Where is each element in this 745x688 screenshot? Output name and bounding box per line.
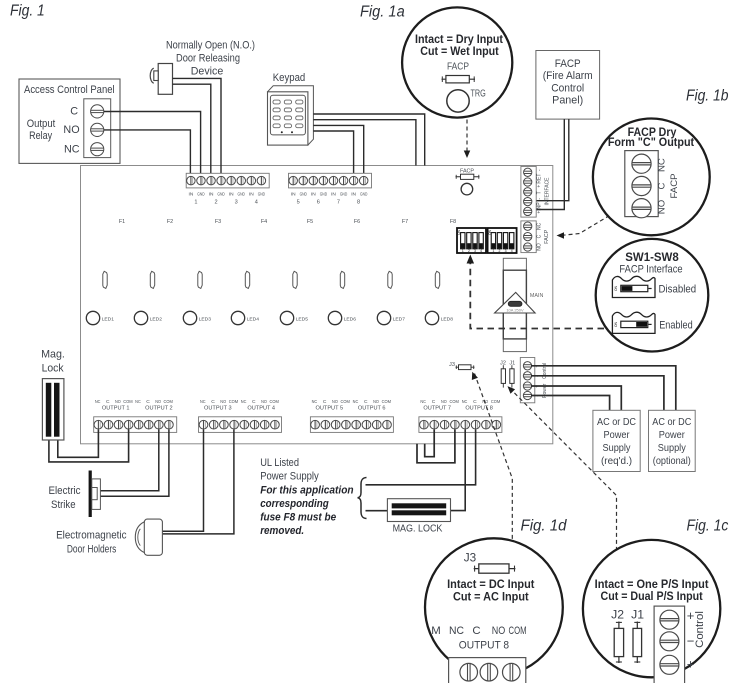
svg-text:NC: NC bbox=[241, 399, 247, 405]
svg-text:Supply: Supply bbox=[658, 443, 687, 454]
input terminal strip 1-4 bbox=[186, 173, 269, 188]
svg-text:10A 250V: 10A 250V bbox=[506, 307, 524, 312]
svg-text:FACP: FACP bbox=[544, 229, 550, 243]
keypad wire 4 to IN8 bbox=[313, 131, 353, 177]
Fig 1d terminal strip bbox=[449, 658, 526, 685]
svg-text:C: C bbox=[473, 399, 477, 405]
svg-text:NC: NC bbox=[200, 399, 206, 405]
svg-text:F7: F7 bbox=[402, 219, 408, 225]
svg-text:(optional): (optional) bbox=[653, 456, 691, 467]
svg-text:F8: F8 bbox=[450, 219, 456, 225]
mag lock (output 8) bbox=[387, 499, 450, 522]
svg-text:7: 7 bbox=[337, 199, 340, 205]
svg-text:Strike: Strike bbox=[51, 499, 76, 511]
svg-text:(req'd.): (req'd.) bbox=[601, 456, 632, 467]
svg-text:Control: Control bbox=[551, 82, 584, 94]
svg-text:NC: NC bbox=[420, 399, 426, 405]
svg-text:Form "C" Output: Form "C" Output bbox=[608, 136, 694, 149]
svg-text:FACP: FACP bbox=[669, 173, 680, 198]
svg-text:GND: GND bbox=[340, 191, 348, 196]
Fig 1c J2 jumper bbox=[618, 622, 620, 664]
svg-text:OUTPUT 1: OUTPUT 1 bbox=[102, 406, 130, 412]
dashed: Fig 1a to board FACP fuse bbox=[466, 120, 468, 152]
relay screw C bbox=[91, 105, 104, 118]
svg-text:Mag.: Mag. bbox=[41, 349, 65, 361]
svg-text:LED7: LED7 bbox=[393, 316, 406, 322]
relay screw NO bbox=[91, 123, 104, 136]
svg-text:COM: COM bbox=[509, 625, 527, 637]
access control panel box bbox=[19, 79, 120, 163]
svg-text:NO: NO bbox=[441, 399, 447, 405]
svg-text:Fig. 1a: Fig. 1a bbox=[360, 4, 405, 21]
relay terminal strip bbox=[84, 99, 111, 158]
svg-text:OUTPUT 4: OUTPUT 4 bbox=[247, 406, 275, 412]
svg-text:FACP Interface: FACP Interface bbox=[619, 263, 682, 275]
svg-text:OUTPUT 6: OUTPUT 6 bbox=[358, 406, 386, 412]
svg-text:C: C bbox=[70, 106, 78, 118]
controller board outline bbox=[81, 166, 553, 444]
fuse F7 clip bbox=[388, 271, 392, 288]
svg-text:Power: Power bbox=[659, 430, 685, 441]
keypad leds bbox=[281, 131, 283, 133]
svg-text:J2: J2 bbox=[611, 608, 624, 622]
svg-text:Output: Output bbox=[27, 118, 56, 130]
svg-text:Control: Control bbox=[694, 611, 706, 648]
svg-text:LED5: LED5 bbox=[296, 316, 309, 322]
svg-text:NO: NO bbox=[657, 200, 668, 214]
svg-text:COM: COM bbox=[229, 399, 238, 405]
svg-text:OUTPUT 2: OUTPUT 2 bbox=[145, 406, 173, 412]
svg-text:T: T bbox=[536, 191, 542, 194]
svg-text:Keypad: Keypad bbox=[273, 72, 306, 84]
svg-text:FACP: FACP bbox=[555, 58, 581, 70]
wire hook: COM7 bbox=[417, 430, 455, 463]
svg-text:NC: NC bbox=[64, 144, 80, 156]
svg-text:F5: F5 bbox=[307, 219, 313, 225]
wire: supply brace to mag lock bbox=[366, 510, 388, 512]
FACP (fire alarm control panel) box bbox=[536, 51, 600, 120]
svg-text:IN: IN bbox=[351, 191, 356, 196]
svg-text:NC: NC bbox=[657, 158, 668, 172]
svg-text:NC: NC bbox=[95, 399, 101, 405]
svg-text:IN: IN bbox=[209, 191, 214, 196]
svg-text:NO: NO bbox=[332, 399, 338, 405]
keypad (3D) bbox=[268, 86, 314, 145]
svg-text:ON: ON bbox=[614, 285, 618, 291]
svg-text:Cut = AC Input: Cut = AC Input bbox=[453, 589, 529, 603]
svg-text:Fig. 1: Fig. 1 bbox=[10, 3, 45, 20]
svg-text:OUTPUT 7: OUTPUT 7 bbox=[423, 406, 451, 412]
svg-text:C: C bbox=[364, 399, 368, 405]
fuse F8 clip bbox=[435, 271, 439, 288]
svg-text:COM: COM bbox=[123, 399, 132, 405]
svg-text:4: 4 bbox=[480, 249, 482, 253]
svg-text:GND: GND bbox=[258, 191, 266, 196]
svg-text:IN: IN bbox=[311, 191, 316, 196]
input terminal strip 5-8 bbox=[289, 173, 372, 188]
svg-text:C: C bbox=[432, 399, 436, 405]
output terminal strip OUTPUT 5/OUTPUT 6 bbox=[310, 417, 393, 433]
Fig 1b callout circle bbox=[593, 118, 710, 235]
wire: door device to IN2 bbox=[173, 78, 222, 177]
svg-text:NC: NC bbox=[449, 625, 464, 637]
svg-text:4: 4 bbox=[511, 249, 513, 253]
MAIN fuse block bbox=[503, 258, 526, 351]
svg-text:3: 3 bbox=[235, 199, 238, 205]
svg-text:LED8: LED8 bbox=[441, 316, 454, 322]
FACP dry-contact terminal strip bbox=[521, 221, 536, 253]
svg-text:C: C bbox=[211, 399, 215, 405]
Fig 1c terminal strip bbox=[654, 606, 685, 684]
wire: electric strike to COM2 bbox=[100, 430, 168, 497]
Fig 1a callout circle bbox=[402, 7, 512, 117]
svg-text:F4: F4 bbox=[261, 219, 267, 225]
svg-text:+: + bbox=[536, 185, 542, 188]
MAIN warning triangle 10A 250V bbox=[495, 292, 535, 313]
svg-text:Panel): Panel) bbox=[552, 95, 583, 107]
LED6 bbox=[328, 311, 341, 324]
door releasing device (pushbutton) bbox=[158, 64, 172, 95]
svg-text:Disabled: Disabled bbox=[659, 284, 697, 296]
AC or DC power supply (required) box bbox=[593, 410, 640, 471]
svg-text:IN: IN bbox=[249, 191, 254, 196]
svg-text:IN: IN bbox=[331, 191, 336, 196]
svg-text:Door Releasing: Door Releasing bbox=[176, 53, 240, 65]
svg-text:Power: Power bbox=[604, 430, 630, 441]
svg-text:J1: J1 bbox=[631, 608, 644, 622]
svg-text:AC or DC: AC or DC bbox=[652, 417, 691, 428]
svg-text:Fig. 1b: Fig. 1b bbox=[686, 88, 729, 105]
svg-text:LED2: LED2 bbox=[150, 316, 163, 322]
svg-text:Electric: Electric bbox=[48, 485, 81, 497]
wire: NC8 to mag lock (bottom) bbox=[451, 430, 466, 511]
power/control terminal strip bbox=[520, 358, 535, 403]
fuse F3 clip bbox=[198, 271, 202, 288]
svg-text:COM: COM bbox=[491, 399, 500, 405]
LED2 bbox=[134, 311, 147, 324]
svg-text:COM: COM bbox=[163, 399, 172, 405]
svg-text:LED1: LED1 bbox=[102, 316, 115, 322]
LED3 bbox=[183, 311, 196, 324]
Fig 1a TRG circle bbox=[447, 90, 469, 112]
svg-text:Electromagnetic: Electromagnetic bbox=[56, 530, 127, 542]
Fig 1a FACP fuse bbox=[442, 78, 476, 80]
svg-text:LED6: LED6 bbox=[344, 316, 357, 322]
svg-text:C: C bbox=[536, 234, 542, 238]
svg-text:OUTPUT 5: OUTPUT 5 bbox=[316, 406, 344, 412]
LED4 bbox=[231, 311, 244, 324]
svg-text:C: C bbox=[146, 399, 150, 405]
svg-text:NO: NO bbox=[220, 399, 226, 405]
svg-text:Relay: Relay bbox=[29, 130, 52, 142]
svg-text:NC: NC bbox=[353, 399, 359, 405]
svg-text:FACP: FACP bbox=[460, 168, 474, 174]
wire: mag lock to NC1 bbox=[58, 430, 99, 458]
svg-text:GND: GND bbox=[217, 191, 225, 196]
svg-text:UL Listed: UL Listed bbox=[260, 457, 299, 469]
svg-text:C: C bbox=[323, 399, 327, 405]
svg-text:Lock: Lock bbox=[42, 363, 64, 375]
keypad wire 1 (to board edge) bbox=[313, 114, 424, 166]
fuse F6 clip bbox=[340, 271, 344, 288]
dashed: J1/J2 to Fig 1c bbox=[510, 388, 617, 550]
fuse F2 clip bbox=[150, 271, 154, 288]
svg-text:GND: GND bbox=[197, 191, 205, 196]
wire: door holder to COM3 bbox=[162, 430, 234, 534]
dashed: J3 to Fig 1d bbox=[475, 374, 513, 540]
svg-text:OUTPUT 3: OUTPUT 3 bbox=[204, 406, 232, 412]
wire: door device to GND2 bbox=[173, 84, 211, 177]
svg-text:1: 1 bbox=[194, 199, 197, 205]
LED8 bbox=[425, 311, 438, 324]
wire hook: C7 bbox=[425, 430, 435, 457]
SW disabled graphic bbox=[612, 276, 655, 297]
svg-text:AC or DC: AC or DC bbox=[597, 417, 636, 428]
wire: power - to required supply bbox=[531, 396, 610, 411]
wire: relay C to input GND1 bbox=[104, 112, 201, 178]
svg-text:COM: COM bbox=[270, 399, 279, 405]
fuse F1 clip bbox=[103, 271, 107, 288]
output terminal strip OUTPUT 3/OUTPUT 4 bbox=[199, 417, 282, 433]
svg-text:NO: NO bbox=[155, 399, 161, 405]
svg-text:5: 5 bbox=[297, 199, 300, 205]
svg-text:removed.: removed. bbox=[260, 525, 304, 537]
output terminal strip OUTPUT 7/OUTPUT 8 bbox=[419, 417, 502, 433]
svg-text:Fig. 1d: Fig. 1d bbox=[521, 518, 568, 535]
svg-text:Supply: Supply bbox=[603, 443, 632, 454]
svg-text:4: 4 bbox=[255, 199, 258, 205]
svg-text:Device: Device bbox=[191, 66, 224, 78]
svg-text:NO: NO bbox=[261, 399, 267, 405]
svg-text:Enabled: Enabled bbox=[659, 320, 693, 332]
svg-text:MAG. LOCK: MAG. LOCK bbox=[393, 524, 443, 535]
FACP wire to RET terminal bbox=[528, 119, 564, 209]
svg-text:IN: IN bbox=[291, 191, 296, 196]
svg-text:OUTPUT 8: OUTPUT 8 bbox=[465, 406, 493, 412]
svg-text:COM: COM bbox=[382, 399, 391, 405]
svg-text:LED4: LED4 bbox=[247, 316, 260, 322]
svg-text:1: 1 bbox=[462, 249, 464, 253]
svg-text:NO: NO bbox=[536, 243, 542, 251]
keypad wire 2 (to board edge) bbox=[313, 120, 416, 166]
svg-text:fuse F8 must be: fuse F8 must be bbox=[260, 511, 336, 523]
dashed: SW1-SW8 to DIP switches bbox=[470, 260, 604, 329]
svg-text:C: C bbox=[106, 399, 110, 405]
Fig 1d callout circle bbox=[425, 538, 563, 676]
svg-text:3: 3 bbox=[505, 249, 507, 253]
wire: power + to required supply bbox=[531, 386, 621, 410]
SW1-SW8 callout circle bbox=[596, 239, 709, 352]
svg-text:NO: NO bbox=[63, 124, 79, 136]
svg-text:IN: IN bbox=[189, 191, 194, 196]
svg-text:J3: J3 bbox=[464, 551, 477, 565]
dashed: Fig 1b to FACP strip bbox=[562, 216, 610, 236]
svg-text:F3: F3 bbox=[215, 219, 221, 225]
svg-text:Fig. 1c: Fig. 1c bbox=[687, 518, 729, 535]
svg-text:1: 1 bbox=[492, 249, 494, 253]
svg-text:Cut = Wet Input: Cut = Wet Input bbox=[420, 44, 499, 58]
svg-text:C: C bbox=[472, 625, 480, 637]
Fig 1d J3 jumper bbox=[474, 568, 516, 570]
svg-text:GND: GND bbox=[238, 191, 246, 196]
svg-text:FACP: FACP bbox=[447, 62, 469, 73]
fuse F4 clip bbox=[245, 271, 249, 288]
relay screw NC bbox=[91, 143, 104, 156]
svg-text:NO: NO bbox=[115, 399, 121, 405]
svg-text:RET: RET bbox=[536, 174, 542, 184]
svg-text:Access Control Panel: Access Control Panel bbox=[24, 84, 115, 96]
svg-text:2: 2 bbox=[214, 199, 217, 205]
svg-text:GND: GND bbox=[360, 191, 368, 196]
FACP wire to T terminal bbox=[528, 119, 569, 201]
svg-text:F2: F2 bbox=[167, 219, 173, 225]
svg-text:TRG: TRG bbox=[471, 89, 486, 100]
svg-text:3: 3 bbox=[474, 249, 476, 253]
fuse F5 clip bbox=[293, 271, 297, 288]
svg-text:Normally Open (N.O.): Normally Open (N.O.) bbox=[166, 40, 255, 52]
Fig 1c callout circle bbox=[583, 540, 720, 677]
svg-text:2: 2 bbox=[468, 249, 470, 253]
brace bbox=[358, 478, 367, 519]
board TRG jumper circle bbox=[461, 183, 473, 195]
INTERFACE terminal strip bbox=[521, 166, 536, 217]
svg-text:NO: NO bbox=[492, 625, 506, 637]
svg-text:ON: ON bbox=[614, 321, 618, 327]
svg-text:NC: NC bbox=[135, 399, 141, 405]
svg-text:F1: F1 bbox=[119, 219, 125, 225]
wire: control - to optional supply bbox=[531, 376, 664, 411]
svg-text:2: 2 bbox=[499, 249, 501, 253]
svg-text:6: 6 bbox=[317, 199, 320, 205]
svg-text:LED3: LED3 bbox=[199, 316, 212, 322]
svg-text:J3: J3 bbox=[449, 362, 455, 368]
wire: C8 to supply brace bbox=[366, 430, 476, 485]
keypad wire 3 to GND8 bbox=[313, 125, 363, 177]
svg-text:NC: NC bbox=[462, 399, 468, 405]
svg-text:+INP: +INP bbox=[536, 202, 542, 214]
svg-text:INTERFACE: INTERFACE bbox=[544, 177, 550, 206]
svg-text:For this application: For this application bbox=[260, 484, 353, 496]
svg-text:+: + bbox=[687, 657, 695, 672]
svg-text:C: C bbox=[657, 182, 668, 189]
svg-text:NC: NC bbox=[536, 222, 542, 230]
svg-text:SW1-SW8: SW1-SW8 bbox=[625, 250, 678, 264]
svg-text:F6: F6 bbox=[354, 219, 360, 225]
svg-text:GND: GND bbox=[300, 191, 308, 196]
DIP switch block SW1-SW4 bbox=[457, 228, 486, 253]
svg-text:COM: COM bbox=[450, 399, 459, 405]
AC or DC power supply (optional) box bbox=[649, 410, 696, 471]
wire: mag lock to COM1 bbox=[49, 430, 129, 462]
svg-text:C: C bbox=[252, 399, 256, 405]
svg-text:OUTPUT 8: OUTPUT 8 bbox=[459, 639, 509, 651]
svg-text:Door Holders: Door Holders bbox=[67, 543, 117, 555]
svg-text:COM: COM bbox=[341, 399, 350, 405]
wire: control + to optional supply bbox=[531, 366, 676, 411]
svg-text:NO: NO bbox=[373, 399, 379, 405]
LED7 bbox=[377, 311, 390, 324]
wire: door holder to NC3 bbox=[162, 430, 203, 532]
svg-text:8: 8 bbox=[357, 199, 360, 205]
wire: electric strike to NO2 bbox=[97, 430, 159, 491]
SW enabled graphic bbox=[612, 312, 655, 333]
svg-text:NC: NC bbox=[312, 399, 318, 405]
output terminal strip OUTPUT 1/OUTPUT 2 bbox=[94, 417, 177, 433]
svg-text:GND: GND bbox=[320, 191, 328, 196]
svg-text:MAIN: MAIN bbox=[530, 293, 544, 299]
LED5 bbox=[280, 311, 293, 324]
svg-text:M: M bbox=[431, 625, 441, 637]
wire: relay NO to input IN1 bbox=[104, 130, 191, 177]
DIP switch block SW5-SW8 bbox=[488, 228, 517, 253]
svg-text:corresponding: corresponding bbox=[260, 498, 329, 510]
keypad keys bbox=[273, 100, 280, 104]
svg-text:Power Supply: Power Supply bbox=[260, 471, 319, 483]
svg-text:Cut = Dual P/S Input: Cut = Dual P/S Input bbox=[601, 589, 703, 603]
svg-text:(Fire Alarm: (Fire Alarm bbox=[543, 70, 593, 82]
Fig 1b terminal strip bbox=[625, 151, 658, 217]
LED1 bbox=[86, 311, 99, 324]
svg-text:IN: IN bbox=[229, 191, 234, 196]
Fig 1c J1 jumper bbox=[636, 622, 638, 664]
